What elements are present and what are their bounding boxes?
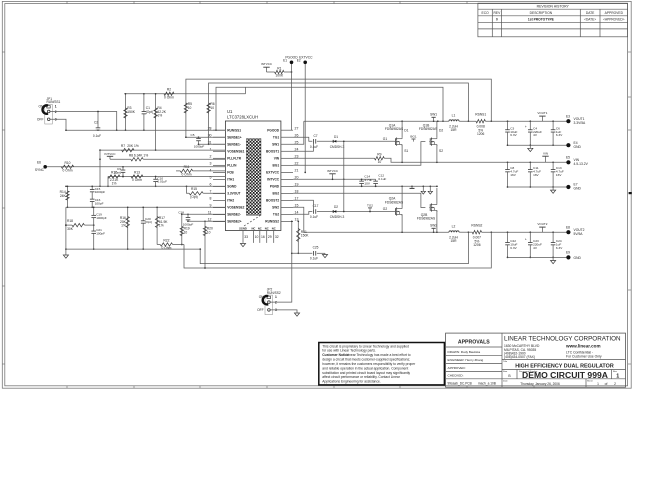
svg-text:TG2: TG2: [367, 203, 373, 207]
svg-text:RSNS2: RSNS2: [471, 224, 482, 228]
svg-text:2: 2: [55, 110, 57, 114]
capacitor C24: [551, 232, 563, 258]
ground (JP2): [294, 313, 299, 316]
svg-text:S2: S2: [439, 149, 443, 153]
capacitor C5: [191, 133, 205, 148]
svg-text:G2: G2: [383, 207, 388, 211]
capacitor C10: [153, 176, 167, 188]
svg-text:4: 4: [210, 168, 212, 172]
svg-text:APPROVED: APPROVED: [605, 11, 624, 15]
svg-text:VIN: VIN: [274, 156, 280, 160]
svg-text:R13: R13: [134, 171, 140, 175]
svg-text:+: +: [525, 238, 527, 242]
svg-text:Customer Notice: Customer Notice: [322, 353, 349, 357]
svg-text:1%: 1%: [112, 182, 117, 186]
svg-text:0.01uF: 0.01uF: [157, 180, 167, 184]
capacitor C22: [505, 232, 517, 258]
svg-text:0.1uF: 0.1uF: [378, 177, 386, 181]
svg-text:BOOST2: BOOST2: [266, 199, 279, 203]
svg-text:1%: 1%: [121, 224, 126, 228]
wire VOSENSE1 row: [99, 149, 225, 151]
svg-text:27: 27: [295, 126, 299, 130]
svg-text:(Opt): (Opt): [146, 110, 154, 114]
svg-text:SW1: SW1: [430, 112, 437, 116]
svg-text:NC: NC: [258, 226, 262, 230]
svg-text:ITH2: ITH2: [227, 199, 234, 203]
svg-text:C2: C2: [94, 121, 98, 125]
svg-text:R2: R2: [167, 87, 171, 91]
svg-text:100K: 100K: [275, 74, 284, 78]
wire L2 to RSNS2: [459, 231, 472, 233]
capacitor C16: [90, 198, 104, 208]
svg-text:REV: REV: [494, 11, 502, 15]
svg-text:(Opt): (Opt): [145, 220, 152, 224]
svg-text:100pF: 100pF: [96, 232, 105, 236]
svg-text:EXTVCC: EXTVCC: [299, 55, 313, 59]
svg-text:www.linear.com: www.linear.com: [565, 344, 601, 349]
svg-text:for use with Linear Technology: for use with Linear Technology parts.: [322, 349, 376, 353]
wire JP2 pin3 gnd: [270, 310, 297, 313]
wire SW1 route: [293, 121, 304, 144]
svg-text:16V: 16V: [533, 173, 539, 177]
svg-text:E1: E1: [283, 59, 287, 63]
svg-text:OFF: OFF: [257, 308, 264, 312]
resistor R14: [60, 185, 70, 208]
svg-text:OFF: OFF: [37, 118, 44, 122]
inductor L1: [449, 114, 459, 133]
svg-text:99saab_DC.PCB: 99saab_DC.PCB: [448, 381, 472, 385]
wire kelvin bus 2: [184, 231, 492, 268]
svg-text:24: 24: [295, 147, 299, 151]
svg-text:R8: R8: [129, 153, 133, 157]
svg-text:RSNS1: RSNS1: [475, 113, 486, 117]
svg-text:D2: D2: [334, 205, 338, 209]
svg-text:For Customer Use Only: For Customer Use Only: [566, 355, 602, 359]
svg-text:1: 1: [275, 295, 277, 299]
svg-text:24K: 24K: [60, 194, 67, 198]
wire RUN/SS1 row: [65, 129, 225, 131]
resistor R22: [157, 239, 184, 251]
svg-text:CHECKED:: CHECKED:: [448, 373, 464, 377]
svg-text:2: 2: [275, 301, 277, 305]
svg-text:D1: D1: [334, 135, 338, 139]
wire D1 to INTVCC: [343, 140, 345, 180]
testpoint E6 SYNC: [35, 161, 47, 172]
svg-text:0.1uF: 0.1uF: [310, 145, 318, 149]
wire R20 to bus: [204, 252, 206, 269]
capacitor C20: [141, 206, 152, 250]
svg-text:E3: E3: [566, 115, 570, 119]
wire ITH1 row: [108, 176, 225, 178]
capacitor C25: [292, 246, 325, 261]
connector JP2 RUN/SS2: [257, 288, 281, 315]
svg-text:ON: ON: [39, 105, 45, 109]
svg-text:3: 3: [210, 161, 212, 165]
wire VOSENSE2 row: [66, 206, 226, 208]
svg-text:R18: R18: [67, 219, 73, 223]
resistor R13: [122, 171, 143, 183]
svg-text:E2: E2: [297, 59, 301, 63]
op-amp U1 LTC3728LXCUH: [208, 109, 299, 243]
svg-text:10: 10: [378, 160, 382, 164]
svg-text:1206: 1206: [473, 243, 481, 247]
svg-text:G1: G1: [383, 137, 388, 141]
svg-text:33: 33: [244, 235, 248, 239]
svg-text:10: 10: [210, 106, 214, 110]
svg-text:and reliable operation in the: and reliable operation in the actual app…: [322, 366, 408, 370]
title block: [446, 333, 626, 387]
transistor Q2A: [383, 186, 404, 232]
ground (U1 pin 33): [240, 244, 245, 247]
node INTVCC (R1): [261, 62, 275, 72]
capacitor C1: [142, 93, 154, 131]
node TG2 label: [367, 203, 373, 212]
svg-text:TG1: TG1: [273, 135, 279, 139]
svg-text:DATE: DATE: [586, 11, 595, 15]
svg-text:<APPROVED>: <APPROVED>: [603, 18, 625, 22]
svg-text:CMDSH-3: CMDSH-3: [330, 215, 345, 219]
node INTVCC (decoupling): [327, 169, 339, 180]
testpoint E2 EXTVCC: [297, 55, 313, 64]
svg-text:of: of: [605, 382, 608, 386]
svg-text:RUN/SS2: RUN/SS2: [265, 220, 279, 224]
svg-text:SENSE2-: SENSE2-: [227, 213, 241, 217]
svg-text:NC: NC: [265, 226, 269, 230]
svg-text:ENGINEER: Henry Zhang: ENGINEER: Henry Zhang: [448, 358, 484, 362]
ground (pgnd a): [410, 186, 415, 188]
svg-text:1: 1: [597, 382, 599, 386]
svg-text:Applications Engineering for a: Applications Engineering for assistance.: [322, 380, 381, 384]
svg-text:16V: 16V: [556, 173, 562, 177]
wire ITH2 bottom row: [65, 248, 200, 250]
svg-text:6.3V: 6.3V: [510, 133, 517, 137]
svg-text:FDS6982AS: FDS6982AS: [419, 127, 438, 131]
capacitor C11: [528, 162, 541, 188]
svg-text:BOOST1: BOOST1: [266, 149, 279, 153]
ground (pgnd c): [428, 186, 432, 194]
wire JP1 pin3: [50, 119, 66, 130]
svg-text:ON: ON: [259, 295, 265, 299]
svg-text:FDS6982AS: FDS6982AS: [385, 200, 404, 204]
wire VIN row: [293, 158, 567, 163]
svg-text:1%: 1%: [157, 114, 162, 118]
svg-text:INTVCC: INTVCC: [104, 152, 116, 156]
svg-text:PGOOD: PGOOD: [267, 128, 280, 132]
svg-text:INTVCC: INTVCC: [327, 169, 339, 173]
svg-text:SYNC: SYNC: [35, 168, 45, 172]
svg-text:R10: R10: [64, 161, 70, 165]
svg-text:however, it remains the custom: however, it remains the customers respon…: [322, 362, 416, 366]
inductor L2: [449, 225, 459, 244]
svg-text:0 Ohm: 0 Ohm: [132, 178, 142, 182]
capacitor C8: [505, 162, 518, 188]
svg-text:16V: 16V: [510, 173, 516, 177]
svg-text:0: 0: [496, 18, 498, 22]
svg-text:D1: D1: [404, 129, 408, 133]
svg-text:S1: S1: [404, 149, 408, 153]
svg-text:EXTVCC: EXTVCC: [266, 171, 280, 175]
svg-text:0.1uF: 0.1uF: [93, 134, 101, 138]
resistor R1: [275, 66, 293, 77]
svg-text:SENSE2+: SENSE2+: [227, 220, 242, 224]
svg-text:C5: C5: [191, 133, 195, 137]
wire TG1 route: [293, 137, 312, 141]
terminal E3 VOUT1: [566, 115, 586, 125]
wire SENSE2+ row: [188, 220, 225, 222]
resistor R7: [121, 144, 139, 152]
diode D1 CMDSH-3: [330, 135, 395, 149]
svg-text:FDS6982AS: FDS6982AS: [385, 127, 404, 131]
svg-text:R12: R12: [111, 171, 117, 175]
resistor R17: [155, 206, 168, 244]
svg-text:10: 10: [207, 230, 211, 234]
resistor R6: [207, 98, 215, 145]
svg-text:GND: GND: [574, 187, 582, 191]
svg-text:SENSE1-: SENSE1-: [227, 142, 241, 146]
svg-text:PLLFLTR: PLLFLTR: [227, 156, 242, 160]
svg-text:U1: U1: [227, 109, 233, 114]
resistor R16: [120, 206, 130, 250]
resistor R12: [107, 171, 120, 188]
svg-text:SW2: SW2: [272, 206, 279, 210]
diode D2 CMDSH-3: [330, 205, 395, 219]
capacitor C2: [93, 111, 101, 138]
resistor R2: [164, 87, 174, 99]
wire D2 to INTVCC: [343, 179, 345, 212]
testpoint E1 PGOOD: [283, 55, 298, 64]
terminal E4 GND: [566, 141, 581, 149]
capacitor C3: [505, 121, 517, 146]
svg-text:6.3V: 6.3V: [556, 246, 563, 250]
svg-text:GND: GND: [574, 256, 582, 260]
svg-text:VOUT2: VOUT2: [537, 222, 547, 226]
capacitor C9: [114, 166, 125, 177]
svg-text:1000pF: 1000pF: [96, 216, 107, 220]
capacitor C19: [91, 206, 106, 225]
svg-text:E6: E6: [37, 161, 41, 165]
wire VOUT2 row: [482, 231, 567, 233]
svg-text:30: 30: [208, 133, 212, 137]
svg-text:design a circuit that meets cu: design a circuit that meets customer-sup…: [322, 358, 410, 362]
resistor R21: [297, 220, 310, 254]
svg-text:SW2: SW2: [430, 223, 437, 227]
svg-text:4.5-13.2V: 4.5-13.2V: [574, 162, 589, 166]
svg-text:1206: 1206: [477, 132, 485, 136]
svg-text:21: 21: [295, 168, 299, 172]
wire gnd row 3: [508, 256, 567, 258]
svg-text:29: 29: [268, 235, 272, 239]
ground (vin): [551, 187, 556, 193]
svg-text:1%: 1%: [159, 224, 164, 228]
svg-text:NC: NC: [272, 226, 276, 230]
capacitor C4: [525, 121, 542, 146]
svg-text:INTVCC: INTVCC: [261, 62, 273, 66]
svg-text:R1: R1: [277, 66, 281, 70]
node VOUT1: [537, 111, 547, 121]
svg-text:C7: C7: [313, 134, 317, 138]
resistor R8: [129, 153, 226, 161]
resistor R18: [65, 219, 94, 231]
svg-text:+: +: [525, 125, 527, 129]
resistor R15: [186, 185, 226, 198]
wire bus B (SENSE1- kelvin): [209, 83, 470, 122]
svg-text:23: 23: [295, 154, 299, 158]
svg-text:Date: Date: [503, 379, 508, 382]
svg-text:R11: R11: [184, 165, 190, 169]
svg-text:(408)434-0507 (FAX): (408)434-0507 (FAX): [504, 355, 535, 359]
svg-text:1: 1: [210, 147, 212, 151]
svg-text:10: 10: [184, 230, 188, 234]
svg-text:R15: R15: [191, 187, 197, 191]
transistor Q1B: [419, 121, 444, 162]
wire VOUT1 row: [485, 120, 566, 122]
transistor Q2B: [417, 188, 437, 232]
svg-text:RUN/SS2: RUN/SS2: [267, 291, 281, 295]
svg-text:16: 16: [261, 235, 265, 239]
wire BOOST2: [293, 200, 313, 209]
ground (left): [63, 255, 68, 258]
wire fb vertical: [99, 150, 101, 187]
ground (C25): [322, 253, 327, 257]
svg-text:26: 26: [295, 133, 299, 137]
wire gnd row 1: [508, 144, 567, 146]
resistor R10: [61, 161, 73, 173]
svg-text:15R: 15R: [450, 239, 457, 243]
terminal E9 GND: [566, 251, 581, 260]
svg-text:10V: 10V: [364, 181, 370, 185]
svg-text:VOSENSE2: VOSENSE2: [227, 206, 244, 210]
svg-text:20: 20: [295, 176, 299, 180]
ground (vout1): [528, 145, 533, 151]
svg-text:(Opt): (Opt): [190, 195, 198, 199]
wire E2 to pin 21: [304, 64, 306, 173]
svg-text:INTVCC: INTVCC: [267, 178, 280, 182]
svg-text:150K: 150K: [301, 234, 310, 238]
wire gnd row 2: [508, 186, 567, 188]
wire BG2 route: [293, 193, 425, 207]
wire BG1 route: [293, 142, 425, 166]
wire SW1 node row: [304, 120, 449, 122]
ground (vout2): [551, 257, 556, 263]
node INTVCC (R8): [104, 152, 130, 159]
svg-text:REVISION HISTORY: REVISION HISTORY: [537, 5, 570, 9]
svg-text:1st PROTOTYPE: 1st PROTOTYPE: [528, 18, 555, 22]
svg-text:VOUT1: VOUT1: [537, 111, 547, 115]
svg-text:5: 5: [210, 176, 212, 180]
note box: [319, 343, 445, 385]
wire JP2 pin2 to RUN/SS2: [270, 220, 292, 302]
svg-text:22: 22: [295, 161, 299, 165]
node BG1 label: [410, 134, 416, 141]
svg-text:5V/5A: 5V/5A: [574, 232, 584, 236]
svg-text:0 Ohm: 0 Ohm: [63, 169, 73, 173]
svg-text:6.3V: 6.3V: [556, 133, 563, 137]
svg-text:1000pF: 1000pF: [194, 144, 205, 148]
svg-text:BG1: BG1: [273, 164, 280, 168]
wire kelvin bus 1: [199, 231, 469, 263]
wire R2 rail: [124, 87, 245, 94]
terminal E7 GND: [566, 183, 581, 191]
wire SGND row: [65, 185, 225, 187]
svg-text:8: 8: [210, 197, 212, 201]
capacitor C12: [373, 174, 386, 188]
capacitor C7 (boost1): [310, 134, 333, 149]
capacitor C15: [90, 185, 105, 199]
wire SW2 route: [293, 207, 304, 232]
resistor R3: [124, 93, 136, 131]
wire SENSE1- row: [199, 143, 226, 145]
svg-text:substitution and printed circu: substitution and printed circuit board l…: [322, 371, 410, 375]
capacitor C18: [178, 210, 193, 226]
wire SW2 node row: [304, 231, 449, 233]
wire BOOST1: [293, 144, 313, 152]
capacitor C13: [551, 162, 564, 188]
revision history table: [478, 3, 628, 37]
svg-text:3.3V/5A: 3.3V/5A: [574, 121, 587, 125]
capacitor C14: [359, 175, 372, 188]
svg-text:25: 25: [295, 140, 299, 144]
resistor R19: [180, 213, 190, 245]
wire L1 to RSNS1: [459, 120, 476, 122]
svg-text:APPROVALS: APPROVALS: [458, 340, 490, 346]
testpoint SW2: [430, 223, 437, 232]
wire TG2 route: [293, 212, 312, 215]
svg-text:SGND: SGND: [227, 185, 237, 189]
svg-text:CMDSH-3: CMDSH-3: [330, 145, 345, 149]
svg-text:0 Ohm: 0 Ohm: [164, 96, 174, 100]
resistor RSNS1: [475, 113, 486, 136]
svg-text:This circuit is proprietary to: This circuit is proprietary to Linear Te…: [322, 344, 409, 348]
svg-text:Thursday, January 26, 2006: Thursday, January 26, 2006: [520, 382, 560, 386]
svg-text:RUN/SS1: RUN/SS1: [227, 128, 241, 132]
capacitor C6: [551, 121, 563, 146]
svg-text:28: 28: [208, 126, 212, 130]
svg-text:C25: C25: [313, 246, 319, 250]
svg-text:L1: L1: [452, 114, 456, 118]
wire SENSE1+ row: [185, 136, 225, 138]
svg-text:R9: R9: [377, 152, 381, 156]
svg-text:mach_a 10B: mach_a 10B: [478, 381, 496, 385]
wire SENSE2- row: [182, 213, 226, 215]
svg-text:LTC3728LXCUH: LTC3728LXCUH: [227, 115, 258, 120]
terminal E8 VOUT2: [566, 226, 585, 236]
svg-text:0.1uF: 0.1uF: [310, 215, 318, 219]
svg-text:ECO: ECO: [482, 11, 490, 15]
svg-text:DRAWN: Rudy Bautista: DRAWN: Rudy Bautista: [448, 350, 481, 354]
svg-text:0.1uF: 0.1uF: [310, 257, 318, 261]
svg-text:E9: E9: [566, 251, 570, 255]
svg-text:DESCRIPTION: DESCRIPTION: [530, 11, 553, 15]
svg-text:15R: 15R: [450, 128, 457, 132]
wire JP1 pin2: [50, 112, 118, 132]
wire bus A (SENSE1+ kelvin): [186, 79, 492, 122]
svg-text:PLLIN: PLLIN: [227, 164, 237, 168]
svg-text:30K: 30K: [67, 227, 74, 231]
svg-text:TG2: TG2: [273, 213, 279, 217]
svg-text:SENSE1+: SENSE1+: [227, 135, 242, 139]
wire E1 to pin 27: [291, 64, 293, 130]
svg-text:100pF: 100pF: [95, 201, 104, 205]
svg-text:Linear Technology has made a b: Linear Technology has made a best effort…: [347, 353, 411, 357]
svg-text:E5: E5: [566, 156, 570, 160]
svg-text:PGND: PGND: [270, 185, 280, 189]
ground (pgnd b): [421, 186, 425, 194]
testpoint SW1: [430, 112, 437, 121]
svg-text:LINEAR TECHNOLOGY CORPORATION: LINEAR TECHNOLOGY CORPORATION: [504, 335, 621, 342]
svg-text:32: 32: [275, 235, 279, 239]
wire INTVCC row: [293, 178, 376, 180]
svg-text:SW1: SW1: [272, 142, 279, 146]
